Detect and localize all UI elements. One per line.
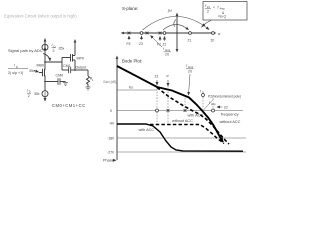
svg-text:2( s/p +1): 2( s/p +1) [8, 71, 23, 75]
svg-text:CM1: CM1 [63, 64, 71, 68]
svg-text:35x: 35x [59, 47, 65, 51]
svg-text:P: P [167, 75, 170, 79]
svg-text:MB0: MB0 [37, 63, 44, 67]
svg-text:with ACC: with ACC [139, 128, 155, 132]
svg-text:CM0: CM0 [56, 73, 64, 77]
svg-text:2: 2 [28, 94, 30, 98]
svg-text:P2: P2 [157, 43, 161, 47]
svg-text:2π: 2π [165, 53, 170, 57]
svg-text:Z1: Z1 [155, 75, 159, 79]
svg-text:jω: jω [167, 8, 172, 13]
svg-text:No Q: No Q [219, 15, 227, 19]
svg-text:2π: 2π [188, 70, 193, 74]
svg-text:-180: -180 [107, 137, 114, 141]
svg-text:35x: 35x [29, 69, 35, 73]
svg-text:D: D [16, 65, 18, 69]
svg-text:swp: swp [211, 103, 216, 106]
svg-text:P3: P3 [127, 42, 131, 46]
svg-text:Output: Output [76, 65, 87, 69]
svg-text:CM0+CM1+CC: CM0+CM1+CC [52, 103, 86, 108]
svg-text:Ko: Ko [129, 86, 133, 90]
svg-text:without ACC: without ACC [172, 119, 193, 123]
svg-text:Z2: Z2 [163, 43, 167, 47]
svg-text:I: I [52, 43, 53, 47]
svg-text:I: I [14, 64, 15, 68]
svg-text:-90: -90 [109, 122, 114, 126]
svg-text:Bode Plot:: Bode Plot: [122, 59, 142, 64]
svg-text:<: < [213, 6, 215, 10]
svg-text:35x: 35x [34, 92, 40, 96]
svg-text:Signal path by ADC: Signal path by ADC [8, 48, 43, 53]
svg-text:Z2: Z2 [224, 106, 228, 110]
svg-text:0: 0 [110, 109, 112, 113]
svg-text:Z1: Z1 [188, 39, 192, 43]
svg-text:P2(Nondominant pole): P2(Nondominant pole) [208, 95, 241, 99]
svg-text:S-plane:: S-plane: [122, 6, 138, 11]
svg-text:MP0: MP0 [77, 57, 84, 61]
svg-text:L: L [92, 78, 94, 82]
svg-text:2: 2 [53, 49, 55, 53]
svg-text:without ACC: without ACC [220, 120, 241, 124]
svg-text:frequency: frequency [221, 112, 239, 117]
svg-text:-270: -270 [107, 151, 114, 155]
svg-text:Z0: Z0 [211, 39, 215, 43]
svg-text:Equivalent Circuit (when outpu: Equivalent Circuit (when output is high)… [4, 14, 79, 19]
svg-text:σ: σ [218, 31, 221, 36]
svg-text:Z3: Z3 [139, 42, 143, 46]
svg-text:Gain [dB]: Gain [dB] [103, 80, 116, 84]
svg-text:2: 2 [207, 9, 209, 13]
